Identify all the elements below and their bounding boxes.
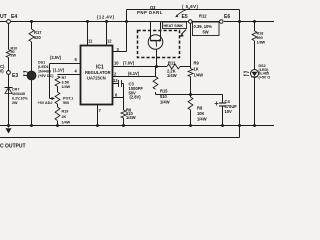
svg-text:(3.5V): (3.5V)	[50, 55, 62, 60]
svg-text:R8: R8	[197, 106, 203, 111]
svg-text:1/4W: 1/4W	[197, 117, 207, 122]
svg-text:390: 390	[257, 36, 263, 40]
svg-text:510: 510	[160, 94, 168, 99]
svg-text:R7: R7	[62, 76, 67, 80]
svg-text:1/8W: 1/8W	[257, 41, 266, 45]
svg-text:12: 12	[107, 39, 112, 44]
svg-text:6.2V,10%: 6.2V,10%	[12, 97, 28, 101]
svg-text:E5: E5	[182, 14, 188, 20]
svg-text:(6.1V): (6.1V)	[128, 71, 140, 76]
svg-text:E4: E4	[11, 14, 17, 20]
svg-text:1/4W: 1/4W	[126, 115, 136, 120]
svg-text:R15: R15	[160, 89, 168, 94]
svg-text:(+5V O: (+5V O	[259, 75, 271, 79]
svg-text:1/4W: 1/4W	[167, 73, 177, 78]
svg-text:500: 500	[63, 101, 69, 105]
svg-text:1K: 1K	[194, 67, 199, 72]
svg-text:1/4W: 1/4W	[160, 100, 170, 105]
svg-text:C OUTPUT: C OUTPUT	[0, 144, 26, 150]
svg-text:(7.0V): (7.0V)	[123, 61, 135, 66]
svg-text:( 5.6V): ( 5.6V)	[182, 4, 198, 9]
svg-text:2K: 2K	[62, 115, 67, 119]
svg-text:(12.4V): (12.4V)	[97, 15, 115, 20]
svg-text:UA723CN: UA723CN	[87, 76, 106, 81]
svg-text:7: 7	[99, 108, 102, 113]
svg-text:5W: 5W	[203, 30, 209, 35]
svg-text:5: 5	[75, 57, 78, 62]
svg-text:REGULATOR: REGULATOR	[85, 70, 111, 75]
svg-text:UT: UT	[0, 14, 7, 20]
svg-text:620: 620	[34, 35, 42, 40]
svg-text:2W: 2W	[12, 101, 18, 105]
svg-text:CR7: CR7	[12, 88, 19, 92]
svg-text:R18: R18	[257, 32, 264, 36]
svg-text:(+5V DC): (+5V DC)	[38, 74, 54, 78]
svg-text:6: 6	[115, 93, 118, 98]
svg-text:1/4W: 1/4W	[62, 85, 71, 89]
svg-text:1N3445: 1N3445	[12, 92, 25, 96]
svg-text:1/4W: 1/4W	[194, 73, 204, 78]
svg-text:E3: E3	[12, 73, 18, 79]
svg-text:0): 0)	[0, 69, 4, 74]
svg-text:13: 13	[113, 78, 118, 83]
svg-text:POT.1: POT.1	[63, 97, 73, 101]
svg-text:PNP DARL: PNP DARL	[137, 10, 163, 15]
svg-text:DS1: DS1	[38, 61, 45, 65]
svg-text:2: 2	[114, 72, 117, 77]
svg-text:11: 11	[88, 39, 93, 44]
svg-text:+5V ADJ: +5V ADJ	[38, 101, 53, 105]
svg-text:R11: R11	[168, 61, 176, 66]
svg-text:10V: 10V	[225, 109, 233, 114]
svg-text:0.39, 10%: 0.39, 10%	[194, 24, 213, 29]
svg-text:1N4485: 1N4485	[38, 70, 51, 74]
svg-text:(2.8V): (2.8V)	[130, 95, 142, 100]
svg-text:1/4W: 1/4W	[62, 121, 71, 125]
svg-text:(LED1): (LED1)	[38, 65, 51, 69]
svg-text:R19: R19	[62, 110, 69, 114]
svg-text:3.5K: 3.5K	[62, 81, 70, 85]
svg-text:R12: R12	[199, 14, 207, 19]
svg-text:HEAT SINK: HEAT SINK	[164, 24, 184, 28]
svg-text:2W: 2W	[11, 54, 17, 58]
svg-text:4: 4	[75, 69, 78, 74]
svg-text:10K: 10K	[197, 111, 205, 116]
svg-text:R9: R9	[194, 61, 200, 66]
svg-text:E6: E6	[224, 14, 230, 20]
svg-text:10: 10	[114, 61, 119, 66]
svg-text:(1.1V): (1.1V)	[53, 68, 65, 73]
